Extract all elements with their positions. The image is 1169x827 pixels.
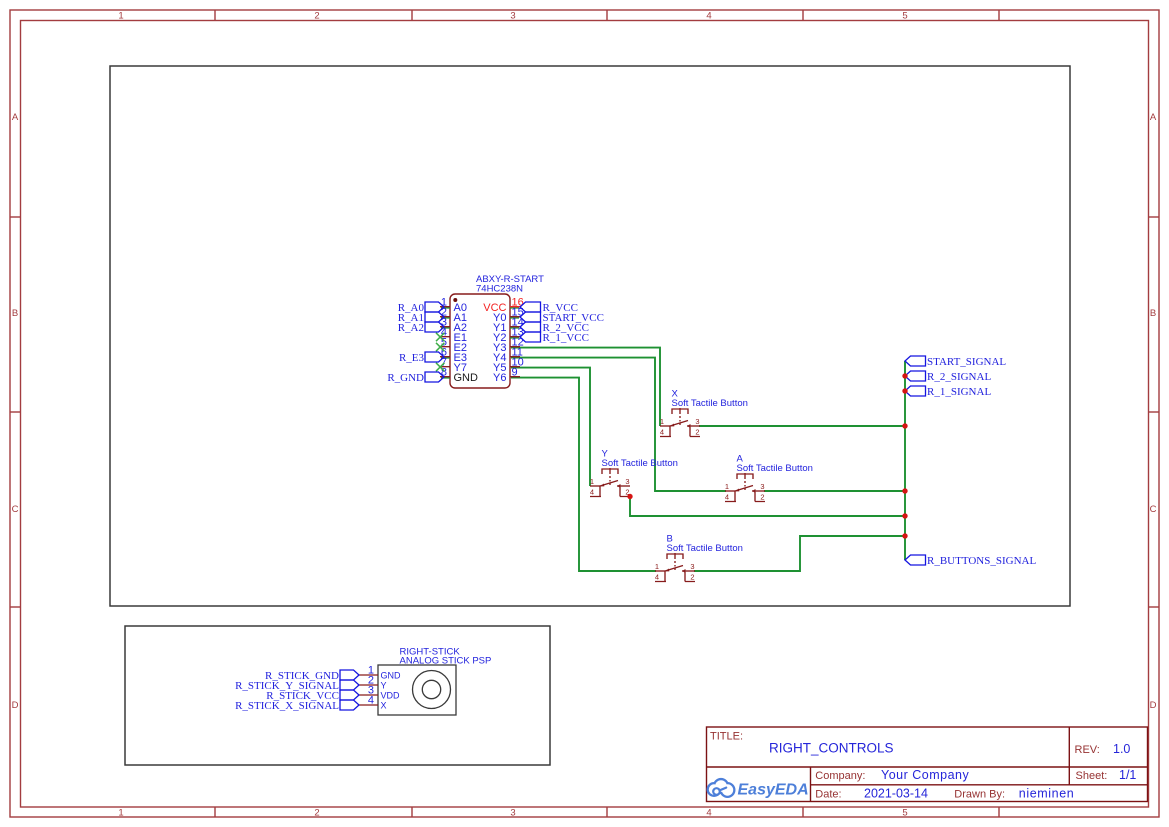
- svg-text:Company:: Company:: [815, 770, 865, 782]
- U1 right pin 11 Y4: [493, 347, 523, 364]
- svg-text:Soft Tactile Button: Soft Tactile Button: [737, 463, 813, 474]
- connector U2 RIGHT-STICK body: [378, 665, 456, 715]
- U1 left pin 8 GND: [440, 367, 478, 384]
- svg-text:D: D: [1150, 700, 1157, 711]
- svg-text:9: 9: [512, 367, 518, 379]
- svg-text:4: 4: [368, 695, 374, 707]
- U1 left pin 2 A1: [440, 307, 467, 324]
- wire Y3 to X button pin1: [511, 348, 660, 426]
- wire Y6 to B button pin1: [511, 378, 656, 571]
- wire X button pin3 to bus: [699, 425, 905, 427]
- net port R_2_VCC: [520, 322, 589, 334]
- svg-text:2: 2: [695, 427, 699, 436]
- svg-text:5: 5: [902, 808, 907, 819]
- svg-text:B: B: [12, 308, 18, 319]
- svg-text:VDD: VDD: [381, 691, 401, 701]
- U1 right pin 14 Y1: [493, 317, 524, 334]
- net port R_1_VCC: [520, 332, 589, 344]
- SW_B pin numbers 1 3 4 2: [655, 562, 695, 581]
- junction at (630,496.5): [627, 494, 632, 499]
- U2 pin 4 X: [359, 695, 387, 711]
- U1 right pin 10 Y5: [493, 357, 524, 374]
- svg-text:4: 4: [706, 808, 711, 819]
- svg-text:B: B: [1150, 308, 1156, 319]
- svg-text:REV:: REV:: [1075, 744, 1100, 756]
- wire Y button pin2 to bus: [630, 496, 905, 516]
- net port R_STICK_VCC: [266, 690, 359, 702]
- analog stick boundary rectangle: [125, 626, 550, 765]
- svg-text:R_BUTTONS_SIGNAL: R_BUTTONS_SIGNAL: [927, 555, 1036, 567]
- junction at (905,516): [902, 513, 907, 518]
- U1 left pin 5 E2: [440, 337, 467, 354]
- svg-text:2: 2: [690, 572, 694, 581]
- svg-text:3: 3: [760, 482, 764, 491]
- svg-text:Your Company: Your Company: [881, 768, 969, 782]
- op-amp/IC U1 ABXY-R-START 74HC238N body: [450, 294, 510, 388]
- svg-text:R_1_SIGNAL: R_1_SIGNAL: [927, 386, 991, 398]
- U1 left pin 3 A2: [440, 317, 467, 334]
- svg-text:1.0: 1.0: [1113, 742, 1130, 756]
- no-connect X mark at pin row y=337: [436, 333, 444, 341]
- svg-text:3: 3: [510, 11, 515, 22]
- main circuit boundary rectangle: [110, 66, 1070, 606]
- switch SW_A A Soft Tactile Button: [725, 473, 765, 502]
- svg-text:EasyEDA: EasyEDA: [738, 782, 809, 799]
- net port R_STICK_GND: [265, 670, 359, 682]
- svg-text:3: 3: [625, 477, 629, 486]
- svg-text:Sheet:: Sheet:: [1076, 770, 1108, 782]
- svg-text:4: 4: [725, 492, 729, 501]
- svg-text:1: 1: [118, 11, 123, 22]
- svg-text:R_2_SIGNAL: R_2_SIGNAL: [927, 371, 991, 383]
- U2 pin 1 GND: [359, 665, 401, 681]
- U1 right pin 16 VCC: [483, 297, 523, 314]
- EasyEDA logo cloud icon: [709, 780, 733, 796]
- net port R_A0: [398, 302, 444, 314]
- svg-text:1: 1: [725, 482, 729, 491]
- net port R_STICK_Y_SIGNAL: [235, 680, 359, 692]
- svg-text:R_A2: R_A2: [398, 322, 424, 334]
- svg-text:4: 4: [655, 572, 659, 581]
- no-connect X mark at pin row y=367: [436, 363, 444, 371]
- svg-text:1: 1: [590, 477, 594, 486]
- no-connect X mark at pin row y=347: [436, 343, 444, 351]
- svg-text:Soft Tactile Button: Soft Tactile Button: [672, 398, 748, 409]
- junction at (905,391): [902, 388, 907, 393]
- switch SW_Y Y Soft Tactile Button: [590, 468, 630, 497]
- svg-text:1: 1: [118, 808, 123, 819]
- svg-text:R_1_VCC: R_1_VCC: [543, 332, 589, 344]
- svg-text:D: D: [12, 700, 19, 711]
- junction at (905,426): [902, 423, 907, 428]
- svg-text:Soft Tactile Button: Soft Tactile Button: [602, 458, 678, 469]
- svg-text:2021-03-14: 2021-03-14: [864, 787, 928, 801]
- svg-text:ANALOG STICK PSP: ANALOG STICK PSP: [400, 656, 492, 667]
- wire A button pin3 to bus: [764, 490, 905, 492]
- U1 left pin 1 A0: [440, 297, 467, 314]
- U1 right pin 13 Y2: [493, 327, 524, 344]
- svg-text:Drawn By:: Drawn By:: [954, 789, 1005, 801]
- U2 pin 3 VDD: [359, 685, 400, 701]
- svg-text:R_GND: R_GND: [387, 372, 424, 384]
- svg-text:4: 4: [590, 487, 594, 496]
- wire Y5 to Y button pin1: [511, 368, 590, 486]
- U1 left pin 7 Y7: [440, 357, 467, 374]
- SW_Y pin numbers 1 3 4 2: [590, 477, 630, 496]
- svg-text:1: 1: [655, 562, 659, 571]
- net port R_GND: [387, 372, 444, 384]
- net port R_VCC: [520, 302, 578, 314]
- U2 pin 2 Y: [359, 675, 387, 691]
- net port R_A2: [398, 322, 444, 334]
- svg-text:C: C: [1150, 504, 1157, 515]
- svg-text:nieminen: nieminen: [1019, 787, 1075, 801]
- svg-text:A: A: [12, 112, 19, 123]
- svg-text:Y6: Y6: [493, 372, 506, 384]
- svg-text:START_SIGNAL: START_SIGNAL: [927, 356, 1006, 368]
- svg-text:Date:: Date:: [815, 789, 841, 801]
- net port R_E3: [399, 352, 444, 364]
- svg-text:2: 2: [314, 808, 319, 819]
- svg-text:Soft Tactile Button: Soft Tactile Button: [667, 543, 743, 554]
- U1 right pin 15 Y0: [493, 307, 524, 324]
- U1 left pin 4 E1: [440, 327, 467, 344]
- junction at (905,491): [902, 488, 907, 493]
- U2 stick outer circle: [413, 671, 451, 709]
- net port START_SIGNAL: [905, 356, 1006, 368]
- svg-text:3: 3: [695, 417, 699, 426]
- net port R_2_SIGNAL: [905, 371, 991, 383]
- svg-text:R_E3: R_E3: [399, 352, 425, 364]
- svg-text:1/1: 1/1: [1119, 768, 1136, 782]
- svg-text:3: 3: [690, 562, 694, 571]
- junction at (905,536): [902, 533, 907, 538]
- svg-text:74HC238N: 74HC238N: [476, 284, 523, 295]
- U1 pin-1 orientation dot: [453, 298, 457, 302]
- svg-text:TITLE:: TITLE:: [710, 731, 743, 743]
- svg-text:RIGHT_CONTROLS: RIGHT_CONTROLS: [769, 741, 894, 756]
- svg-text:A: A: [1150, 112, 1157, 123]
- U1 right pin 9 Y6: [493, 367, 520, 384]
- title block border: [707, 727, 1148, 802]
- SW_X pin numbers 1 3 4 2: [660, 417, 700, 436]
- svg-text:2: 2: [314, 11, 319, 22]
- svg-text:C: C: [12, 504, 19, 515]
- U1 right pin 12 Y3: [493, 337, 524, 354]
- net port R_BUTTONS_SIGNAL: [905, 555, 1036, 567]
- wire right signal bus vertical: [904, 361, 906, 560]
- svg-text:2: 2: [760, 492, 764, 501]
- wire Y4 to A button pin1: [511, 358, 726, 491]
- U2 stick inner circle: [422, 680, 440, 698]
- net port R_STICK_X_SIGNAL: [235, 700, 359, 712]
- net port R_A1: [398, 312, 444, 324]
- junction at (905,376): [902, 373, 907, 378]
- switch SW_B B Soft Tactile Button: [655, 553, 695, 582]
- SW_A pin numbers 1 3 4 2: [725, 482, 765, 501]
- svg-text:1: 1: [660, 417, 664, 426]
- net port R_1_SIGNAL: [905, 386, 991, 398]
- svg-text:Y: Y: [381, 681, 387, 691]
- svg-text:3: 3: [510, 808, 515, 819]
- U1 left pin 6 E3: [440, 347, 467, 364]
- svg-text:R_STICK_X_SIGNAL: R_STICK_X_SIGNAL: [235, 700, 339, 712]
- net port START_VCC: [520, 312, 604, 324]
- svg-text:5: 5: [902, 11, 907, 22]
- wire B button pin3 to bus: [694, 536, 905, 571]
- svg-text:GND: GND: [381, 671, 402, 681]
- svg-text:4: 4: [706, 11, 711, 22]
- switch SW_X X Soft Tactile Button: [660, 408, 700, 437]
- svg-text:GND: GND: [454, 372, 479, 384]
- svg-text:X: X: [381, 701, 387, 711]
- svg-text:4: 4: [660, 427, 664, 436]
